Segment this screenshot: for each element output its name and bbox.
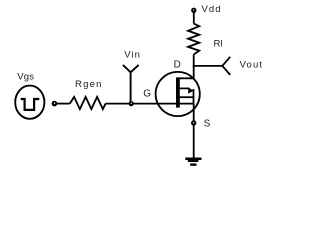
MOSFET gate/channel bar (176, 77, 180, 107)
svg-text:Vgs: Vgs (17, 71, 34, 82)
svg-text:Rgen: Rgen (75, 79, 103, 90)
wire from Vgs terminal to Rgen (57, 103, 70, 105)
wire Vin stem down to junction (130, 72, 132, 101)
MOSFET source lead down to S terminal (193, 104, 195, 121)
wire S to ground (193, 125, 195, 158)
pulse waveform symbol inside Vgs (21, 99, 40, 110)
wire Rl to drain junction (193, 55, 195, 67)
MOSFET bulk-source tie (193, 89, 195, 104)
svg-text:D: D (174, 60, 181, 71)
wire gate junction to MOSFET (133, 103, 193, 105)
svg-text:Vdd: Vdd (202, 4, 222, 15)
wire Vdd to Rl (193, 13, 195, 24)
Vout output terminal (sideways Y symbol) (222, 57, 230, 75)
svg-text:S: S (204, 118, 211, 129)
svg-text:Vin: Vin (124, 50, 141, 61)
terminal node at Vgs output (52, 101, 58, 107)
MOSFET drain arm (179, 66, 194, 78)
Vin input terminal (Y antenna symbol) (123, 65, 139, 72)
junction node at gate/Vin (129, 101, 134, 106)
svg-text:Rl: Rl (214, 39, 223, 50)
wire drain junction to Vout tag (193, 65, 223, 67)
source terminal node S (191, 120, 196, 125)
MOSFET source arm (180, 96, 194, 98)
voltage source Vgs (circle) (15, 86, 44, 119)
wire from Rgen to gate junction (106, 103, 129, 105)
svg-text:G: G (143, 89, 151, 100)
ground symbol (185, 158, 201, 161)
MOSFET substrate arm (180, 87, 190, 89)
MOSFET substrate arrowhead (188, 87, 194, 93)
resistor Rgen (horizontal zigzag) (70, 97, 106, 109)
Vdd terminal node (191, 8, 196, 13)
svg-text:Vout: Vout (240, 59, 264, 70)
resistor Rl (vertical zigzag) (188, 24, 199, 55)
MOSFET U1 body circle (156, 72, 200, 116)
